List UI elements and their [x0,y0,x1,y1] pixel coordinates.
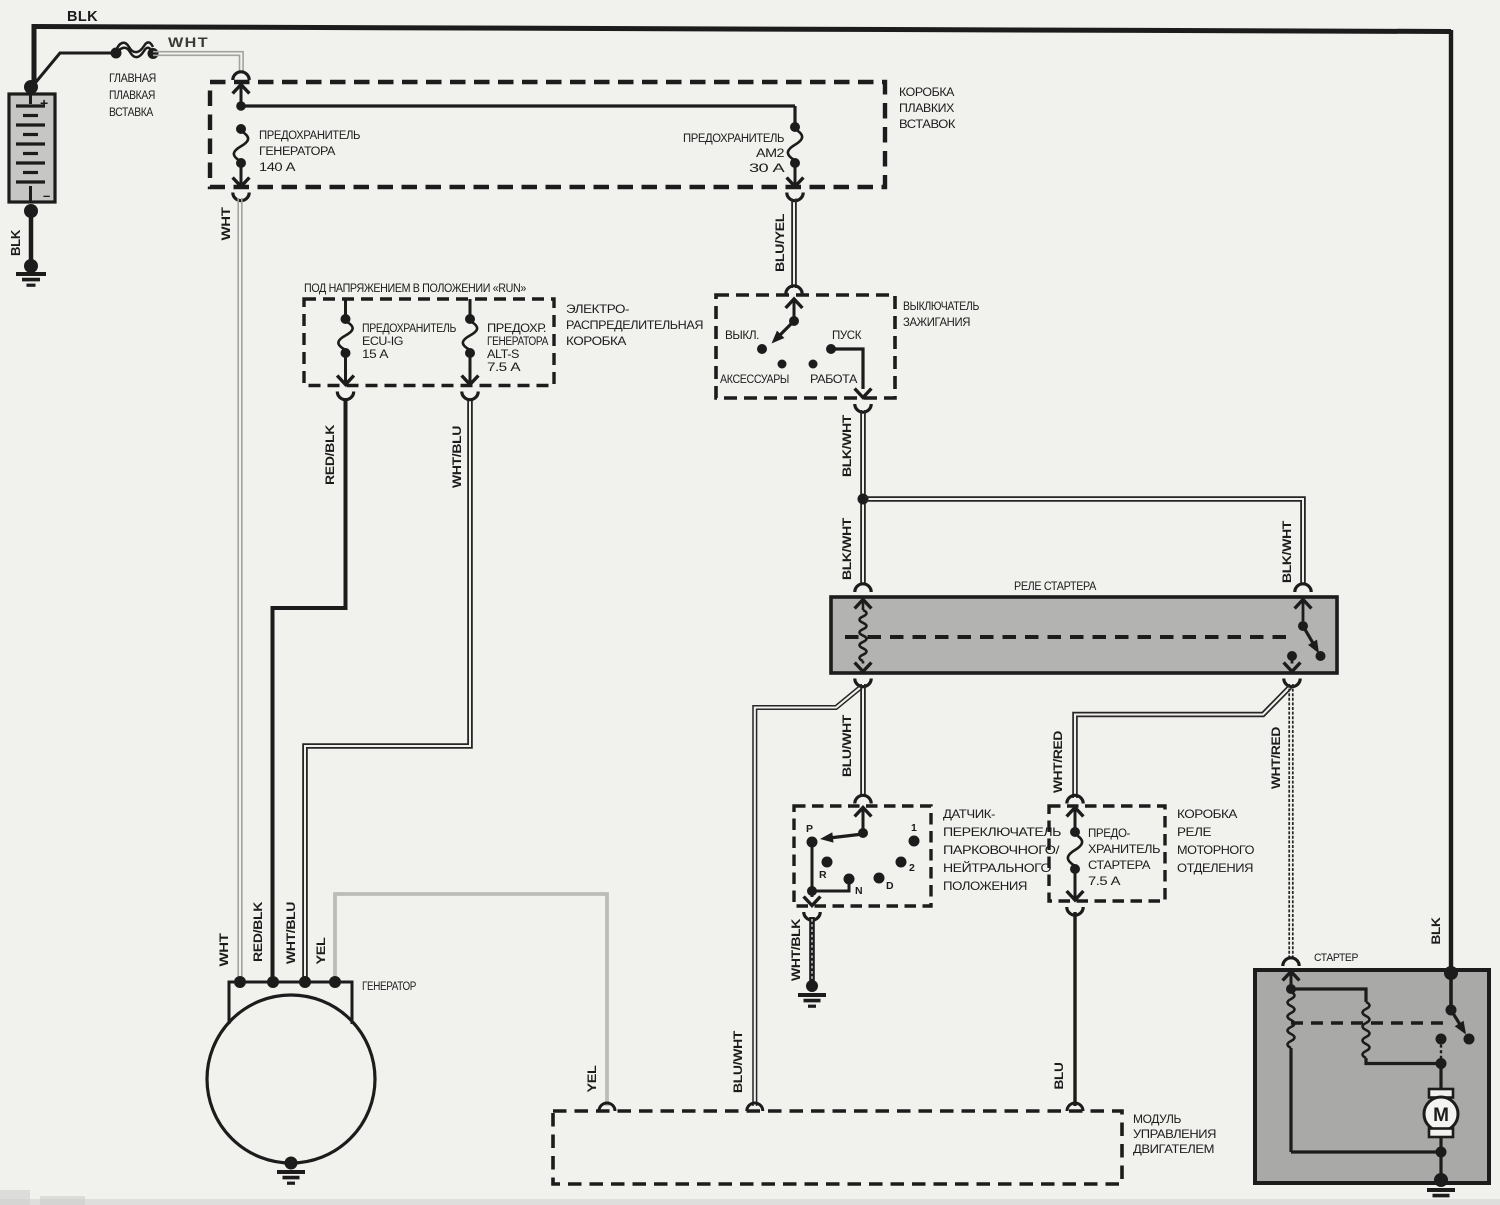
node OFF contact [757,344,767,354]
wire motor to ground [1439,1152,1442,1176]
wire P to PN output [812,842,849,891]
fuse generator 140A [236,124,246,134]
fuse AM2 30A [790,122,800,132]
svg-text:–: – [43,188,50,203]
wire battery to main fusible link [31,53,60,88]
connector into starter fuse box [1067,795,1083,803]
starter relay box [831,597,1337,673]
node generator terminal RED/BLK [267,976,279,988]
wire BLK battery to ground [29,211,34,266]
PN switch arm to P [825,834,863,839]
svg-text:ПРЕДО-: ПРЕДО- [1088,828,1131,840]
svg-text:ПРЕДОХРАНИТЕЛЬ: ПРЕДОХРАНИТЕЛЬ [683,133,784,145]
svg-text:КОРОБКА: КОРОБКА [1177,807,1237,821]
connector BLU into ECM [1067,1103,1083,1111]
connector relay coil input [855,584,871,592]
svg-text:ПОД НАПРЯЖЕНИЕМ В ПОЛОЖЕНИИ «R: ПОД НАПРЯЖЕНИЕМ В ПОЛОЖЕНИИ «RUN» [304,281,527,295]
svg-text:ПРЕДОХРАНИТЕЛЬ: ПРЕДОХРАНИТЕЛЬ [259,130,360,142]
svg-text:РЕЛЕ: РЕЛЕ [1177,825,1211,839]
ground battery [16,272,46,276]
svg-text:D: D [886,880,894,892]
wire BLK/WHT junction to relay switch [865,501,1301,585]
node battery positive [24,80,38,94]
svg-text:2: 2 [909,862,915,874]
wire WHT/BLK to ground [809,917,815,983]
generator [207,995,375,1163]
node RUN contact [809,360,818,369]
svg-text:YEL: YEL [585,1066,599,1093]
svg-text:BLU/WHT: BLU/WHT [731,1030,745,1093]
svg-text:АМ2: АМ2 [756,148,784,160]
connector relay switch output [1284,679,1300,687]
svg-text:P: P [806,823,813,835]
connector into starter [1283,958,1299,966]
wire starter bottom rail [1291,1150,1441,1153]
svg-text:BLK/WHT: BLK/WHT [1280,520,1294,583]
svg-text:15 А: 15 А [362,349,389,361]
starter box [1255,970,1489,1183]
svg-text:WHT: WHT [217,932,231,966]
svg-text:ДАТЧИК-: ДАТЧИК- [943,807,995,821]
park/neutral position switch box [794,806,931,906]
svg-text:ВЫКЛ.: ВЫКЛ. [725,330,759,342]
connector into PN switch [855,795,871,803]
wire BLK/WHT junction to relay coil [860,503,862,585]
svg-text:ПРЕДОХР.: ПРЕДОХР. [487,323,546,335]
svg-text:ПЕРЕКЛЮЧАТЕЛЬ: ПЕРЕКЛЮЧАТЕЛЬ [943,825,1062,839]
svg-text:ПОЛОЖЕНИЯ: ПОЛОЖЕНИЯ [943,879,1027,893]
fusible link box [210,82,885,187]
node N contact [844,874,855,885]
scan artifact bottom band [0,1199,1500,1205]
node BLK/WHT junction [858,494,869,505]
svg-text:ВСТАВКА: ВСТАВКА [109,105,153,119]
svg-text:N: N [855,885,862,897]
svg-text:7.5 А: 7.5 А [487,362,521,374]
wire WHT fuse box to generator [237,198,239,982]
svg-text:RED/BLK: RED/BLK [251,901,265,962]
node D contact [874,873,885,884]
svg-text:BLU/WHT: BLU/WHT [840,714,854,777]
ignition switch box [716,295,895,398]
wire BLK/WHT ignition to junction [860,410,862,494]
svg-text:ГЕНЕРАТОРА: ГЕНЕРАТОРА [487,336,549,348]
svg-text:ВСТАВОК: ВСТАВОК [899,117,955,131]
node BLK at starter top [1444,966,1458,980]
wire YEL [335,894,607,1106]
wire START contact to output [831,349,863,389]
svg-text:ГЕНЕРАТОРА: ГЕНЕРАТОРА [259,146,336,158]
svg-text:ГЛАВНАЯ: ГЛАВНАЯ [109,71,156,85]
svg-text:ЭЛЕКТРО-: ЭЛЕКТРО- [566,302,629,316]
battery [9,94,55,202]
relay internal dashed link [845,635,1290,639]
node generator terminal YEL [329,976,341,988]
ignition switch arm to OFF [775,321,794,340]
svg-text:ПЛАВКИХ: ПЛАВКИХ [899,101,954,115]
relay coil [855,600,872,609]
svg-text:+: + [40,95,48,111]
svg-text:M: M [1433,1105,1449,1126]
node starter bottom rail [1436,1147,1447,1158]
fuse generator ALT-S 7.5A [469,299,472,315]
PN switch input arrow [855,808,872,817]
fusible link (main) [111,48,122,59]
connector into ignition switch [786,286,802,294]
fuse ECU-IG 15A [344,299,347,315]
svg-text:КОРОБКА: КОРОБКА [566,334,626,348]
ignition switch common node [789,316,799,326]
wire inside fusible link box [241,104,795,107]
connector YEL into ECM [599,1103,615,1111]
svg-text:КОРОБКА: КОРОБКА [899,85,954,99]
svg-text:РАСПРЕДЕЛИТЕЛЬНАЯ: РАСПРЕДЕЛИТЕЛЬНАЯ [566,318,703,332]
wire WHT/RED relay to starter [1288,684,1290,958]
svg-text:30 А: 30 А [749,163,785,175]
svg-text:УПРАВЛЕНИЯ: УПРАВЛЕНИЯ [1133,1127,1216,1141]
svg-text:ЗАЖИГАНИЯ: ЗАЖИГАНИЯ [903,315,970,329]
starter hold-in coil branch [1291,989,1366,1002]
svg-text:МОТОРНОГО: МОТОРНОГО [1177,843,1254,857]
connector ECU-IG fuse output [337,392,353,400]
connector ALT-S fuse output [462,392,478,400]
svg-text:BLK/WHT: BLK/WHT [840,517,854,580]
svg-text:НЕЙТРАЛЬНОГО: НЕЙТРАЛЬНОГО [943,860,1051,875]
node 2 contact [896,857,907,868]
svg-text:RED/BLK: RED/BLK [323,424,337,485]
node R contact [822,857,833,868]
engine compartment relay box [1049,806,1165,901]
svg-text:WHT: WHT [219,206,233,240]
svg-text:7.5 А: 7.5 А [1088,876,1121,888]
svg-text:МОДУЛЬ: МОДУЛЬ [1133,1112,1182,1126]
svg-text:ОТДЕЛЕНИЯ: ОТДЕЛЕНИЯ [1177,861,1253,875]
svg-text:ECU-IG: ECU-IG [362,336,403,348]
relay switch [1295,600,1312,609]
wire WHT link to fuse box [153,55,240,71]
svg-text:ALT-S: ALT-S [487,349,520,361]
svg-text:ВЫКЛЮЧАТЕЛЬ: ВЫКЛЮЧАТЕЛЬ [903,299,979,313]
connector relay coil output [855,679,871,687]
connector starter fuse box output [1067,907,1083,915]
svg-text:АКСЕССУАРЫ: АКСЕССУАРЫ [720,374,789,386]
starter internal dashed link [1291,1021,1448,1025]
starter switch [1449,973,1453,1006]
connector relay switch input [1295,584,1311,592]
generator ground [285,1157,298,1170]
svg-text:WHT/RED: WHT/RED [1051,730,1065,793]
starter solenoid input [1283,972,1300,981]
svg-text:BLK/WHT: BLK/WHT [840,414,854,477]
svg-text:BLK: BLK [67,9,98,25]
node 1 contact [909,836,920,847]
svg-text:СТАРТЕРА: СТАРТЕРА [1088,860,1151,872]
wire BLK battery-to-starter top run [34,27,1451,32]
svg-text:WHT: WHT [168,34,209,50]
wire WHT/RED relay to starter fuse [1073,686,1289,798]
ground starter [1427,1188,1455,1192]
electrical distribution box [304,299,554,386]
connector into fusible link box [233,72,249,80]
svg-text:РАБОТА: РАБОТА [810,374,858,386]
node PN output corner [807,886,817,896]
svg-text:1: 1 [911,822,917,834]
svg-text:СТАРТЕР: СТАРТЕР [1314,952,1358,964]
svg-text:BLU/YEL: BLU/YEL [773,214,787,272]
node START contact [826,344,836,354]
fuse starter 7.5A [1067,808,1084,817]
node battery negative [24,204,38,218]
node coil2-motor junction [1436,1058,1447,1069]
starter pull-in coil [1288,992,1295,1048]
svg-text:140 А: 140 А [259,162,296,174]
svg-text:ГЕНЕРАТОР: ГЕНЕРАТОР [362,981,417,993]
connector fuse box bottom left [233,193,249,201]
svg-text:BLK: BLK [8,229,23,256]
connector PN switch output [804,912,820,920]
node ACC contact [778,360,787,369]
svg-text:РЕЛЕ СТАРТЕРА: РЕЛЕ СТАРТЕРА [1014,579,1096,593]
svg-text:WHT/BLU: WHT/BLU [284,902,298,964]
node P contact [807,837,818,848]
svg-text:ДВИГАТЕЛЕМ: ДВИГАТЕЛЕМ [1133,1142,1214,1156]
wire RED/BLK [273,398,346,982]
svg-text:ХРАНИТЕЛЬ: ХРАНИТЕЛЬ [1088,844,1160,856]
wire WHT/BLU [303,398,468,982]
node generator terminal WHT/BLU [299,976,311,988]
svg-text:ПЛАВКАЯ: ПЛАВКАЯ [109,88,155,102]
svg-text:WHT/BLK: WHT/BLK [789,918,803,981]
wire BLU starter fuse to ECM [1073,912,1076,1106]
svg-text:WHT/RED: WHT/RED [1269,726,1283,789]
starter motor M [1439,1063,1442,1090]
wire BLU/WHT branch to ECM [753,686,860,1106]
connector fuse box bottom right [787,193,803,201]
wire BLU/YEL [791,199,793,289]
ground PN switch [806,980,818,992]
node generator terminal WHT [234,976,246,988]
wire BLU/WHT relay to PN switch [860,684,862,797]
PN switch common node [858,828,868,838]
svg-text:ПУСК: ПУСК [832,330,862,342]
svg-text:WHT/BLU: WHT/BLU [450,426,464,488]
connector ignition switch output [855,404,871,412]
engine control module box [553,1111,1122,1184]
connector BLU/WHT into ECM [747,1103,763,1111]
svg-text:BLK: BLK [1429,917,1443,945]
svg-text:YEL: YEL [314,938,328,965]
svg-text:ПРЕДОХРАНИТЕЛЬ: ПРЕДОХРАНИТЕЛЬ [362,323,456,335]
svg-text:R: R [819,869,827,881]
svg-text:ПАРКОВОЧНОГО/: ПАРКОВОЧНОГО/ [943,843,1060,857]
svg-text:BLU: BLU [1052,1063,1066,1090]
node fuse box input [236,101,246,111]
